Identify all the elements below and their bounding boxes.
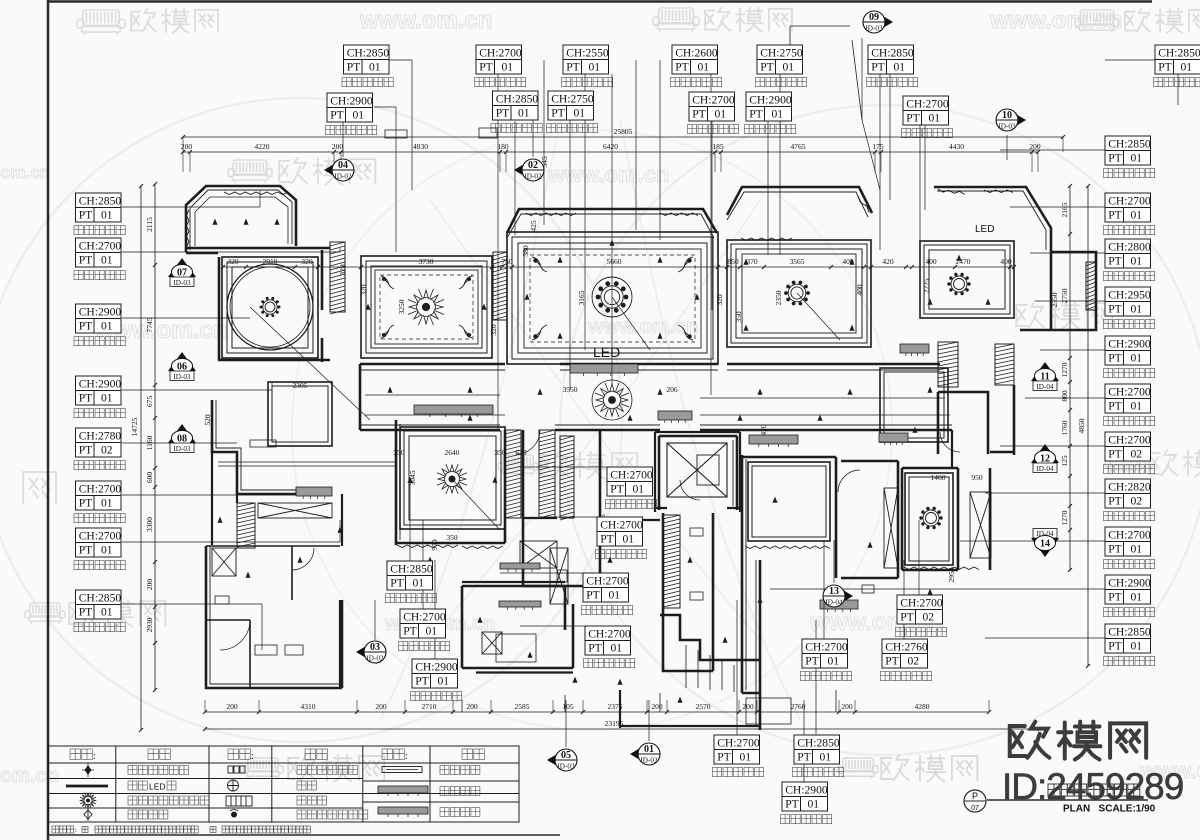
svg-text:01: 01 [1131, 303, 1143, 316]
label box CH:2700 PT01 @(802,639) [802, 639, 848, 668]
svg-text:2350: 2350 [1050, 292, 1059, 307]
svg-text:01: 01 [502, 61, 514, 74]
svg-text:01: 01 [101, 497, 113, 510]
wall inner lines [190, 190, 1046, 726]
label box CH:2700 PT01 @(75.5,238) [76, 238, 122, 267]
svg-text:PT: PT [749, 108, 763, 121]
svg-text:01: 01 [369, 61, 381, 74]
svg-text:CH:2900: CH:2900 [79, 378, 122, 391]
svg-text:380: 380 [521, 245, 530, 257]
svg-text:175: 175 [872, 142, 884, 151]
svg-text:09: 09 [869, 12, 879, 23]
room R6 ceiling [920, 241, 1014, 318]
svg-text:PT: PT [717, 751, 731, 764]
svg-text:01: 01 [611, 642, 623, 655]
svg-text:01: 01 [1131, 255, 1143, 268]
svg-text:01: 01 [609, 589, 621, 602]
svg-text:01: 01 [574, 107, 586, 120]
svg-text:CH:2700: CH:2700 [79, 530, 122, 543]
svg-text:PT: PT [79, 320, 93, 333]
svg-text:320: 320 [489, 324, 498, 336]
svg-text:600: 600 [145, 472, 154, 484]
svg-text:CH:2850: CH:2850 [347, 47, 390, 60]
svg-text:05: 05 [561, 750, 571, 761]
svg-text:PT: PT [760, 61, 774, 74]
svg-text:180: 180 [497, 142, 509, 151]
svg-text:CH:2700: CH:2700 [586, 575, 629, 588]
svg-text:3250: 3250 [397, 299, 406, 314]
detail marker 12/ID-04 [1031, 444, 1059, 473]
svg-text:PT: PT [415, 675, 429, 688]
svg-text:01: 01 [1131, 543, 1143, 556]
cabinets [215, 128, 874, 724]
svg-text:01: 01 [1131, 400, 1143, 413]
svg-text:01: 01 [783, 61, 795, 74]
svg-text:2585: 2585 [515, 702, 530, 711]
svg-text:2305: 2305 [293, 381, 308, 390]
svg-text::: : [93, 751, 96, 762]
label box CH:2700 PT01 @(1105,527) [1105, 527, 1151, 556]
svg-text:PT: PT [1158, 61, 1172, 74]
svg-text:PT: PT [675, 61, 689, 74]
label box CH:2900 PT01 @(782,782) [782, 782, 828, 811]
svg-text:07: 07 [971, 805, 979, 812]
svg-text:CH:2700: CH:2700 [1108, 195, 1151, 208]
label box CH:2900 PT01 @(412,659) [412, 659, 458, 688]
svg-text:02: 02 [923, 611, 935, 624]
svg-text:PT: PT [79, 209, 93, 222]
svg-text:01: 01 [1131, 209, 1143, 222]
svg-text:800: 800 [1060, 390, 1069, 402]
svg-text:02: 02 [528, 160, 538, 171]
svg-text:PT: PT [1108, 152, 1122, 165]
detail marker 03/ID-02 [356, 641, 386, 663]
svg-text:CH:2760: CH:2760 [885, 641, 928, 654]
svg-text:CH:2700: CH:2700 [479, 47, 522, 60]
elevator [667, 443, 727, 497]
svg-text:125: 125 [1060, 455, 1069, 467]
svg-text:01: 01 [1131, 640, 1143, 653]
svg-text:CH:2700: CH:2700 [805, 641, 848, 654]
svg-text:750: 750 [501, 257, 513, 266]
svg-text:200: 200 [226, 702, 238, 711]
svg-text:PT: PT [1108, 543, 1122, 556]
svg-text:200: 200 [466, 702, 478, 711]
svg-text:400: 400 [1000, 257, 1012, 266]
label box CH:2900 PT01 @(327,93) [327, 93, 373, 122]
big site logo [1010, 722, 1050, 758]
label box CH:2700 PT01 @(689,92) [689, 92, 735, 121]
room R1 ceiling lines [195, 197, 288, 246]
svg-text:CH:2700: CH:2700 [610, 469, 653, 482]
label box CH:2760 PT02 @(882,639) [882, 639, 928, 668]
svg-text:PT: PT [1108, 209, 1122, 222]
svg-text:CH:2550: CH:2550 [566, 47, 609, 60]
label box CH:2700 PT01 @(583,573) [583, 573, 629, 602]
svg-text:PT: PT [79, 392, 93, 405]
svg-text:02: 02 [1131, 448, 1143, 461]
detail marker 01/ID-02 [630, 743, 660, 765]
svg-text:www.om.cn: www.om.cn [547, 162, 669, 187]
svg-text:PT: PT [1108, 255, 1122, 268]
svg-text:675: 675 [145, 396, 154, 408]
svg-text:400: 400 [842, 257, 854, 266]
svg-text:ID-02: ID-02 [366, 655, 384, 663]
title block [964, 790, 986, 812]
svg-text:ID:2459289: ID:2459289 [1002, 766, 1183, 807]
svg-text:CH:2700: CH:2700 [79, 483, 122, 496]
svg-text:01: 01 [740, 751, 752, 764]
label box CH:2900 PT01 @(1105,336) [1105, 336, 1151, 365]
svg-text:CH:2850: CH:2850 [79, 592, 122, 605]
svg-text:400: 400 [855, 284, 864, 296]
svg-text:PT: PT [1108, 495, 1122, 508]
corridor medallion [595, 383, 629, 417]
svg-text:02: 02 [908, 655, 920, 668]
svg-text:CH:2850: CH:2850 [79, 195, 122, 208]
label box CH:2700 PT01 @(597,517) [597, 517, 643, 546]
svg-text:ID-02: ID-02 [334, 173, 352, 181]
svg-text:PT: PT [586, 589, 600, 602]
room R5 ceiling [727, 240, 871, 347]
svg-text:PT: PT [79, 254, 93, 267]
detail marker 04/ID-02 [324, 159, 354, 181]
svg-text:420: 420 [882, 257, 894, 266]
svg-text:CH:2700: CH:2700 [403, 611, 446, 624]
svg-text:CH:2700: CH:2700 [1108, 529, 1151, 542]
hallway lowered ceiling [268, 382, 332, 446]
svg-text:01: 01 [644, 744, 654, 755]
detail marker 06/ID-03 [168, 352, 196, 381]
svg-text:200: 200 [651, 702, 663, 711]
svg-text:ID-03: ID-03 [173, 373, 191, 381]
svg-text:01: 01 [353, 109, 365, 122]
svg-text:ID-03: ID-03 [865, 25, 883, 33]
svg-text:01: 01 [101, 320, 113, 333]
label box CH:2700 PT01 @(903,96) [903, 96, 949, 125]
svg-text:CH:2900: CH:2900 [749, 94, 792, 107]
svg-text:185: 185 [712, 142, 724, 151]
svg-text:PT: PT [1108, 448, 1122, 461]
note [52, 826, 59, 833]
svg-text:5660: 5660 [607, 257, 622, 266]
svg-text:CH:2800: CH:2800 [1108, 241, 1151, 254]
label box CH:2550 PT01 @(563,45) [563, 45, 609, 74]
svg-text:ID-02: ID-02 [524, 173, 542, 181]
svg-text:CH:2700: CH:2700 [588, 628, 631, 641]
spotlight arrows [212, 219, 217, 225]
interior top dim row [223, 266, 1014, 268]
svg-text:PT: PT [785, 798, 799, 811]
svg-text:ID-03: ID-03 [998, 123, 1016, 131]
svg-text:PT: PT [871, 61, 885, 74]
svg-text:CH:2850: CH:2850 [797, 737, 840, 750]
right dims [1069, 186, 1071, 570]
svg-text::: : [251, 751, 254, 762]
top total dim 25805 [183, 136, 1063, 138]
svg-text:CH:2850: CH:2850 [871, 47, 914, 60]
svg-text:CH:2700: CH:2700 [900, 597, 943, 610]
svg-text:01: 01 [715, 108, 727, 121]
svg-text:200: 200 [145, 579, 154, 591]
label box CH:2900 PT01 @(1105,575) [1105, 575, 1151, 604]
svg-text:CH:2750: CH:2750 [760, 47, 803, 60]
svg-text:400: 400 [925, 257, 937, 266]
hatch columns [330, 242, 345, 314]
svg-text:320: 320 [715, 294, 724, 306]
svg-text:01: 01 [518, 107, 530, 120]
svg-text:320: 320 [359, 284, 368, 296]
detail marker 07/ID-03 [168, 258, 196, 287]
svg-text:206: 206 [666, 385, 678, 394]
svg-text:CH:2900: CH:2900 [330, 95, 373, 108]
svg-text:CH:2850: CH:2850 [1108, 138, 1151, 151]
left total dim [140, 186, 142, 730]
svg-text:350: 350 [494, 448, 506, 457]
svg-text:950: 950 [971, 473, 983, 482]
svg-text:630: 630 [515, 448, 527, 457]
detail marker 10/ID-03 [996, 109, 1026, 131]
svg-text:01: 01 [828, 655, 840, 668]
label box CH:2850 PT01 @(1105,624) [1105, 624, 1151, 653]
svg-text:2165: 2165 [1060, 202, 1069, 217]
ornament dashed rects [530, 255, 695, 342]
svg-text:2350: 2350 [774, 290, 783, 305]
svg-text:PT: PT [479, 61, 493, 74]
svg-text:4430: 4430 [949, 142, 964, 151]
detail marker 13/ID-04 [823, 585, 853, 607]
svg-text:PT: PT [347, 61, 361, 74]
svg-text:ID-04: ID-04 [1036, 465, 1054, 473]
svg-text:PT: PT [403, 625, 417, 638]
svg-text:7745: 7745 [145, 317, 154, 332]
svg-text:425: 425 [529, 220, 538, 232]
svg-text:3300: 3300 [145, 517, 154, 532]
svg-text:PT: PT [390, 577, 404, 590]
svg-text:CH:2780: CH:2780 [79, 430, 122, 443]
svg-text:PT: PT [551, 107, 565, 120]
svg-text:01: 01 [894, 61, 906, 74]
label box CH:2700 PT01 @(75.5,528) [76, 528, 122, 557]
label box CH:2850 PT01 @(75.5,193) [76, 193, 122, 222]
label box CH:2700 PT01 @(714,735) [714, 735, 760, 764]
svg-text:CH:2900: CH:2900 [415, 661, 458, 674]
svg-text:CH:2900: CH:2900 [1108, 577, 1151, 590]
svg-text:320: 320 [338, 264, 347, 276]
svg-text:PT: PT [1108, 303, 1122, 316]
svg-text:25805: 25805 [614, 127, 633, 136]
svg-text:2375: 2375 [608, 702, 623, 711]
svg-text:2760: 2760 [791, 702, 806, 711]
interior partitions bottom-left [206, 546, 340, 688]
svg-text:PT: PT [566, 61, 580, 74]
svg-text:04: 04 [338, 160, 348, 171]
svg-text:PT: PT [1108, 400, 1122, 413]
svg-text:3730: 3730 [419, 257, 434, 266]
svg-text:PT: PT [79, 544, 93, 557]
svg-text:1460: 1460 [931, 473, 946, 482]
svg-text:01: 01 [589, 61, 601, 74]
svg-text:01: 01 [623, 533, 635, 546]
svg-text:P: P [972, 791, 978, 801]
svg-text:2470: 2470 [956, 257, 971, 266]
extra wall weight [462, 430, 990, 728]
svg-text:PT: PT [588, 642, 602, 655]
label box CH:2800 PT01 @(1105,239) [1105, 239, 1151, 268]
svg-text:1760: 1760 [1060, 420, 1069, 435]
svg-text:03: 03 [370, 642, 380, 653]
svg-text:200: 200 [742, 702, 754, 711]
room R4 living ceiling [507, 232, 718, 364]
svg-text:CH:2700: CH:2700 [79, 240, 122, 253]
label box CH:2850 PT01 @(1105,136) [1105, 136, 1151, 165]
svg-text:420: 420 [759, 424, 768, 436]
detail marker 02/ID-02 [514, 159, 544, 181]
label box CH:2850 PT01 @(343.5,45) [344, 45, 390, 74]
svg-text:CH:2850: CH:2850 [1108, 626, 1151, 639]
svg-text:PT: PT [79, 444, 93, 457]
svg-text:520: 520 [203, 414, 212, 426]
svg-text:PT: PT [797, 751, 811, 764]
label box CH:2900 PT01 @(746,92) [746, 92, 792, 121]
detail marker 14/ID-04 [1031, 529, 1059, 558]
air vents [414, 405, 493, 417]
svg-text:320: 320 [301, 257, 313, 266]
svg-text:LED: LED [593, 344, 620, 360]
svg-text:PT: PT [885, 655, 899, 668]
svg-text:01: 01 [413, 577, 425, 590]
label box CH:2850 PT01 @(1155,45) [1155, 45, 1200, 74]
svg-text:om.cn: om.cn [0, 163, 50, 182]
svg-text:200: 200 [181, 142, 193, 151]
svg-text:PT: PT [906, 112, 920, 125]
svg-text:PT: PT [692, 108, 706, 121]
svg-text:370: 370 [746, 257, 758, 266]
svg-text:970: 970 [430, 539, 439, 551]
svg-text:01: 01 [426, 625, 438, 638]
svg-text:01: 01 [101, 209, 113, 222]
svg-text:PT: PT [610, 483, 624, 496]
svg-text:4830: 4830 [413, 142, 428, 151]
label box CH:2700 PT01 @(400,609) [400, 609, 446, 638]
left segment dims [154, 184, 156, 690]
detail marker 11/ID-04 [1031, 362, 1059, 391]
svg-text:2930: 2930 [145, 617, 154, 632]
svg-text:CH:2950: CH:2950 [1108, 289, 1151, 302]
svg-text:01: 01 [633, 483, 645, 496]
svg-text:CH:2750: CH:2750 [551, 93, 594, 106]
svg-text:LED: LED [149, 782, 166, 792]
svg-text:200: 200 [375, 702, 387, 711]
foyer ceiling [880, 368, 948, 442]
svg-text:4765: 4765 [791, 142, 806, 151]
detail marker 08/ID-03 [168, 424, 196, 453]
svg-text:01: 01 [1131, 352, 1143, 365]
svg-text:01: 01 [101, 254, 113, 267]
svg-text:1270: 1270 [1060, 510, 1069, 525]
svg-text:01: 01 [698, 61, 710, 74]
label box CH:2700 PT01 @(476,45) [476, 45, 522, 74]
svg-text:6420: 6420 [603, 142, 618, 151]
svg-text:PT: PT [900, 611, 914, 624]
svg-text:3045: 3045 [408, 470, 417, 485]
label box CH:2850 PT01 @(387,561) [387, 561, 433, 590]
label box CH:2700 PT01 @(607,467) [607, 467, 653, 496]
svg-text:01: 01 [929, 112, 941, 125]
svg-text:23195: 23195 [605, 719, 624, 728]
svg-text:PT: PT [1108, 640, 1122, 653]
svg-text:CH:2850: CH:2850 [390, 563, 433, 576]
svg-text:14: 14 [1040, 539, 1050, 550]
svg-text:4220: 4220 [255, 142, 270, 151]
svg-text:350: 350 [446, 533, 458, 542]
svg-text:ID-02: ID-02 [640, 757, 658, 765]
svg-text:01: 01 [1181, 61, 1193, 74]
label box CH:2750 PT01 @(757,45) [757, 45, 803, 74]
svg-text:CH:2820: CH:2820 [1108, 481, 1151, 494]
svg-text:2225: 2225 [922, 278, 931, 293]
svg-text:PT: PT [1108, 591, 1122, 604]
svg-text:CH:2700: CH:2700 [717, 737, 760, 750]
svg-text:2115: 2115 [145, 217, 154, 232]
svg-text:2640: 2640 [445, 448, 460, 457]
svg-text:14725: 14725 [130, 417, 139, 436]
svg-text:850: 850 [727, 257, 739, 266]
label box CH:2950 PT01 @(1105,287) [1105, 287, 1151, 316]
svg-text:4850: 4850 [1077, 418, 1086, 433]
label box CH:2850 PT01 @(492.5,91) [493, 91, 539, 120]
svg-text:01: 01 [1131, 591, 1143, 604]
svg-text:10: 10 [1002, 110, 1012, 121]
svg-text:01: 01 [101, 392, 113, 405]
plan walls outer [186, 186, 1096, 730]
svg-text:ID-04: ID-04 [1036, 383, 1054, 391]
label box CH:2700 PT01 @(75.5,481) [76, 481, 122, 510]
svg-text:2950: 2950 [947, 567, 956, 582]
leader lines [122, 38, 1178, 782]
detail marker 05/ID-03 [547, 749, 577, 771]
svg-text::: : [405, 751, 408, 762]
svg-text:CH:2900: CH:2900 [785, 784, 828, 797]
top segment dims [183, 151, 1038, 153]
svg-text:105: 105 [562, 702, 574, 711]
svg-text:CH:2900: CH:2900 [79, 306, 122, 319]
svg-text:CH:2700: CH:2700 [906, 98, 949, 111]
svg-text:PT: PT [805, 655, 819, 668]
svg-text:2710: 2710 [422, 702, 437, 711]
label box CH:2820 PT02 @(1105,479) [1105, 479, 1151, 508]
svg-text:2570: 2570 [696, 702, 711, 711]
svg-text:3565: 3565 [790, 257, 805, 266]
label box CH:2700 PT01 @(1105,384) [1105, 384, 1151, 413]
svg-text:02: 02 [1131, 495, 1143, 508]
svg-text:01: 01 [101, 606, 113, 619]
label box CH:2850 PT01 @(75.5,590) [76, 590, 122, 619]
svg-text:ID-03: ID-03 [557, 763, 575, 771]
detail marker 09/ID-03 [863, 11, 893, 33]
svg-text::: : [75, 826, 77, 834]
svg-text:350: 350 [734, 311, 743, 323]
svg-text:200: 200 [841, 702, 853, 711]
svg-text:320: 320 [227, 257, 239, 266]
svg-text:01: 01 [808, 798, 820, 811]
svg-text:01: 01 [1131, 152, 1143, 165]
svg-text:CH:2900: CH:2900 [1108, 338, 1151, 351]
door arcs [516, 430, 960, 500]
label box CH:2700 PT02 @(897,595) [897, 595, 943, 624]
svg-text:CH:2700: CH:2700 [1108, 434, 1151, 447]
svg-text:PT: PT [79, 606, 93, 619]
